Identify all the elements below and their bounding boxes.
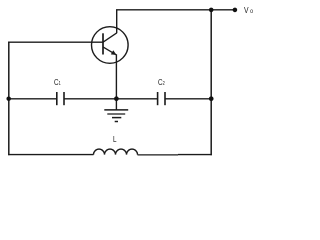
- ground symbol bar 1: [104, 109, 128, 111]
- wire: right vertical rail: [210, 10, 212, 155]
- terminal dot: Vo output: [233, 8, 238, 13]
- wire: middle rail, C1 to ground node to C2: [64, 98, 158, 100]
- ground symbol bar 4: [115, 121, 118, 123]
- label C1: [54, 77, 61, 87]
- junction dot: right rail middle node: [209, 96, 214, 101]
- capacitor C2 left plate: [157, 92, 159, 105]
- ground symbol bar 3: [112, 117, 121, 119]
- inductor L: [94, 149, 138, 155]
- wire: collector lead vertical: [116, 10, 118, 33]
- transistor Q1 envelope circle: [92, 27, 129, 64]
- junction dot: base node on left rail: [6, 96, 11, 101]
- wire: base horizontal from left rail to base bar: [8, 41, 103, 43]
- capacitor C1 right plate: [63, 92, 65, 105]
- wire: bottom rail left segment: [8, 154, 93, 156]
- label L: [113, 134, 117, 144]
- wire: middle rail, left rail to C1 left plate: [8, 98, 57, 100]
- transistor Q1 base bar: [102, 33, 104, 54]
- ground stub wire: [115, 99, 117, 110]
- label C2: [158, 77, 165, 87]
- junction dot: emitter/ground node: [114, 96, 119, 101]
- wire: emitter lead vertical: [115, 54, 117, 99]
- transistor Q1 collector stroke: [103, 33, 117, 42]
- ground symbol bar 2: [107, 113, 125, 115]
- transistor Q1 emitter stroke: [103, 47, 116, 55]
- capacitor C1 left plate: [56, 92, 58, 105]
- junction dot: collector node on top rail: [209, 8, 214, 13]
- capacitor C2 right plate: [164, 92, 166, 105]
- wire: top rail (collector to Vo): [116, 9, 235, 11]
- wire: middle rail, C2 to right rail: [165, 98, 211, 100]
- transistor Q1 emitter arrowhead: [111, 50, 117, 55]
- wire: bottom rail right segment: [178, 154, 212, 156]
- label Vo: [244, 5, 253, 15]
- wire: left vertical rail: [8, 42, 10, 156]
- wire: bottom rail right segment (lighter half-pixel portion): [138, 154, 179, 156]
